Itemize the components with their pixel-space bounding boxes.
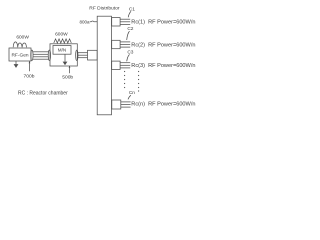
coax cable W1 (RF-Gen to M/N) [31,50,33,61]
feedthrough capacitor lines 2 [120,41,130,43]
RF wave symbol over RF-Gen [13,42,26,47]
tap box 1 [112,18,120,26]
output row 1 [112,6,196,26]
tap box n [112,100,121,109]
svg-text:M/N: M/N [58,48,66,53]
svg-text:500b: 500b [62,75,73,81]
svg-text:600W: 600W [16,35,29,41]
distributor input box [88,50,98,60]
svg-text:C1: C1 [129,6,135,12]
svg-text:RF Distributor: RF Distributor [89,5,120,11]
reference numeral 500b leader arrow [69,66,71,73]
feedthrough capacitor lines 3 [120,62,130,64]
svg-text:Rc(2) RF Power=600W/n: Rc(2) RF Power=600W/n [131,42,195,48]
svg-text:RF-Gen: RF-Gen [11,52,28,58]
svg-text:700b: 700b [24,74,35,80]
svg-text:RC : Reactor chamber: RC : Reactor chamber [18,90,68,96]
svg-text:C2: C2 [127,26,133,32]
tap box 2 [112,40,120,48]
RF distributor main box [97,16,111,115]
feedthrough capacitor lines 1 [120,18,130,20]
matching network box M/N [53,46,71,55]
svg-text:C3: C3 [127,49,133,55]
svg-text:Rc(n) RF Power=600W/n: Rc(n) RF Power=600W/n [131,102,195,108]
RF generator box RF-Gen (600W) [9,48,31,61]
ellipsis dots column 1 [124,71,125,88]
output row n [112,90,196,109]
ground (M/N) [64,54,66,61]
feedthrough capacitor lines n [121,101,131,103]
coax cable W2 (M/N to distributor) [76,50,78,61]
ground (RF-Gen) [15,61,17,64]
output row 2 [112,26,196,49]
svg-text:Rc(1) RF Power=600W/n: Rc(1) RF Power=600W/n [131,20,195,26]
ellipsis dots column 2 [138,71,139,92]
reference numeral 700b leader arrow [29,61,31,71]
RF wave symbol over M/N [54,39,72,43]
matching network enclosure box [50,44,77,66]
svg-text:Cn: Cn [129,90,135,96]
output row 3 [112,49,196,69]
tap box 3 [112,61,120,69]
svg-text:800a: 800a [80,20,91,25]
svg-text:Rc(3) RF Power=600W/n: Rc(3) RF Power=600W/n [131,63,195,69]
svg-text:600W: 600W [55,31,68,37]
